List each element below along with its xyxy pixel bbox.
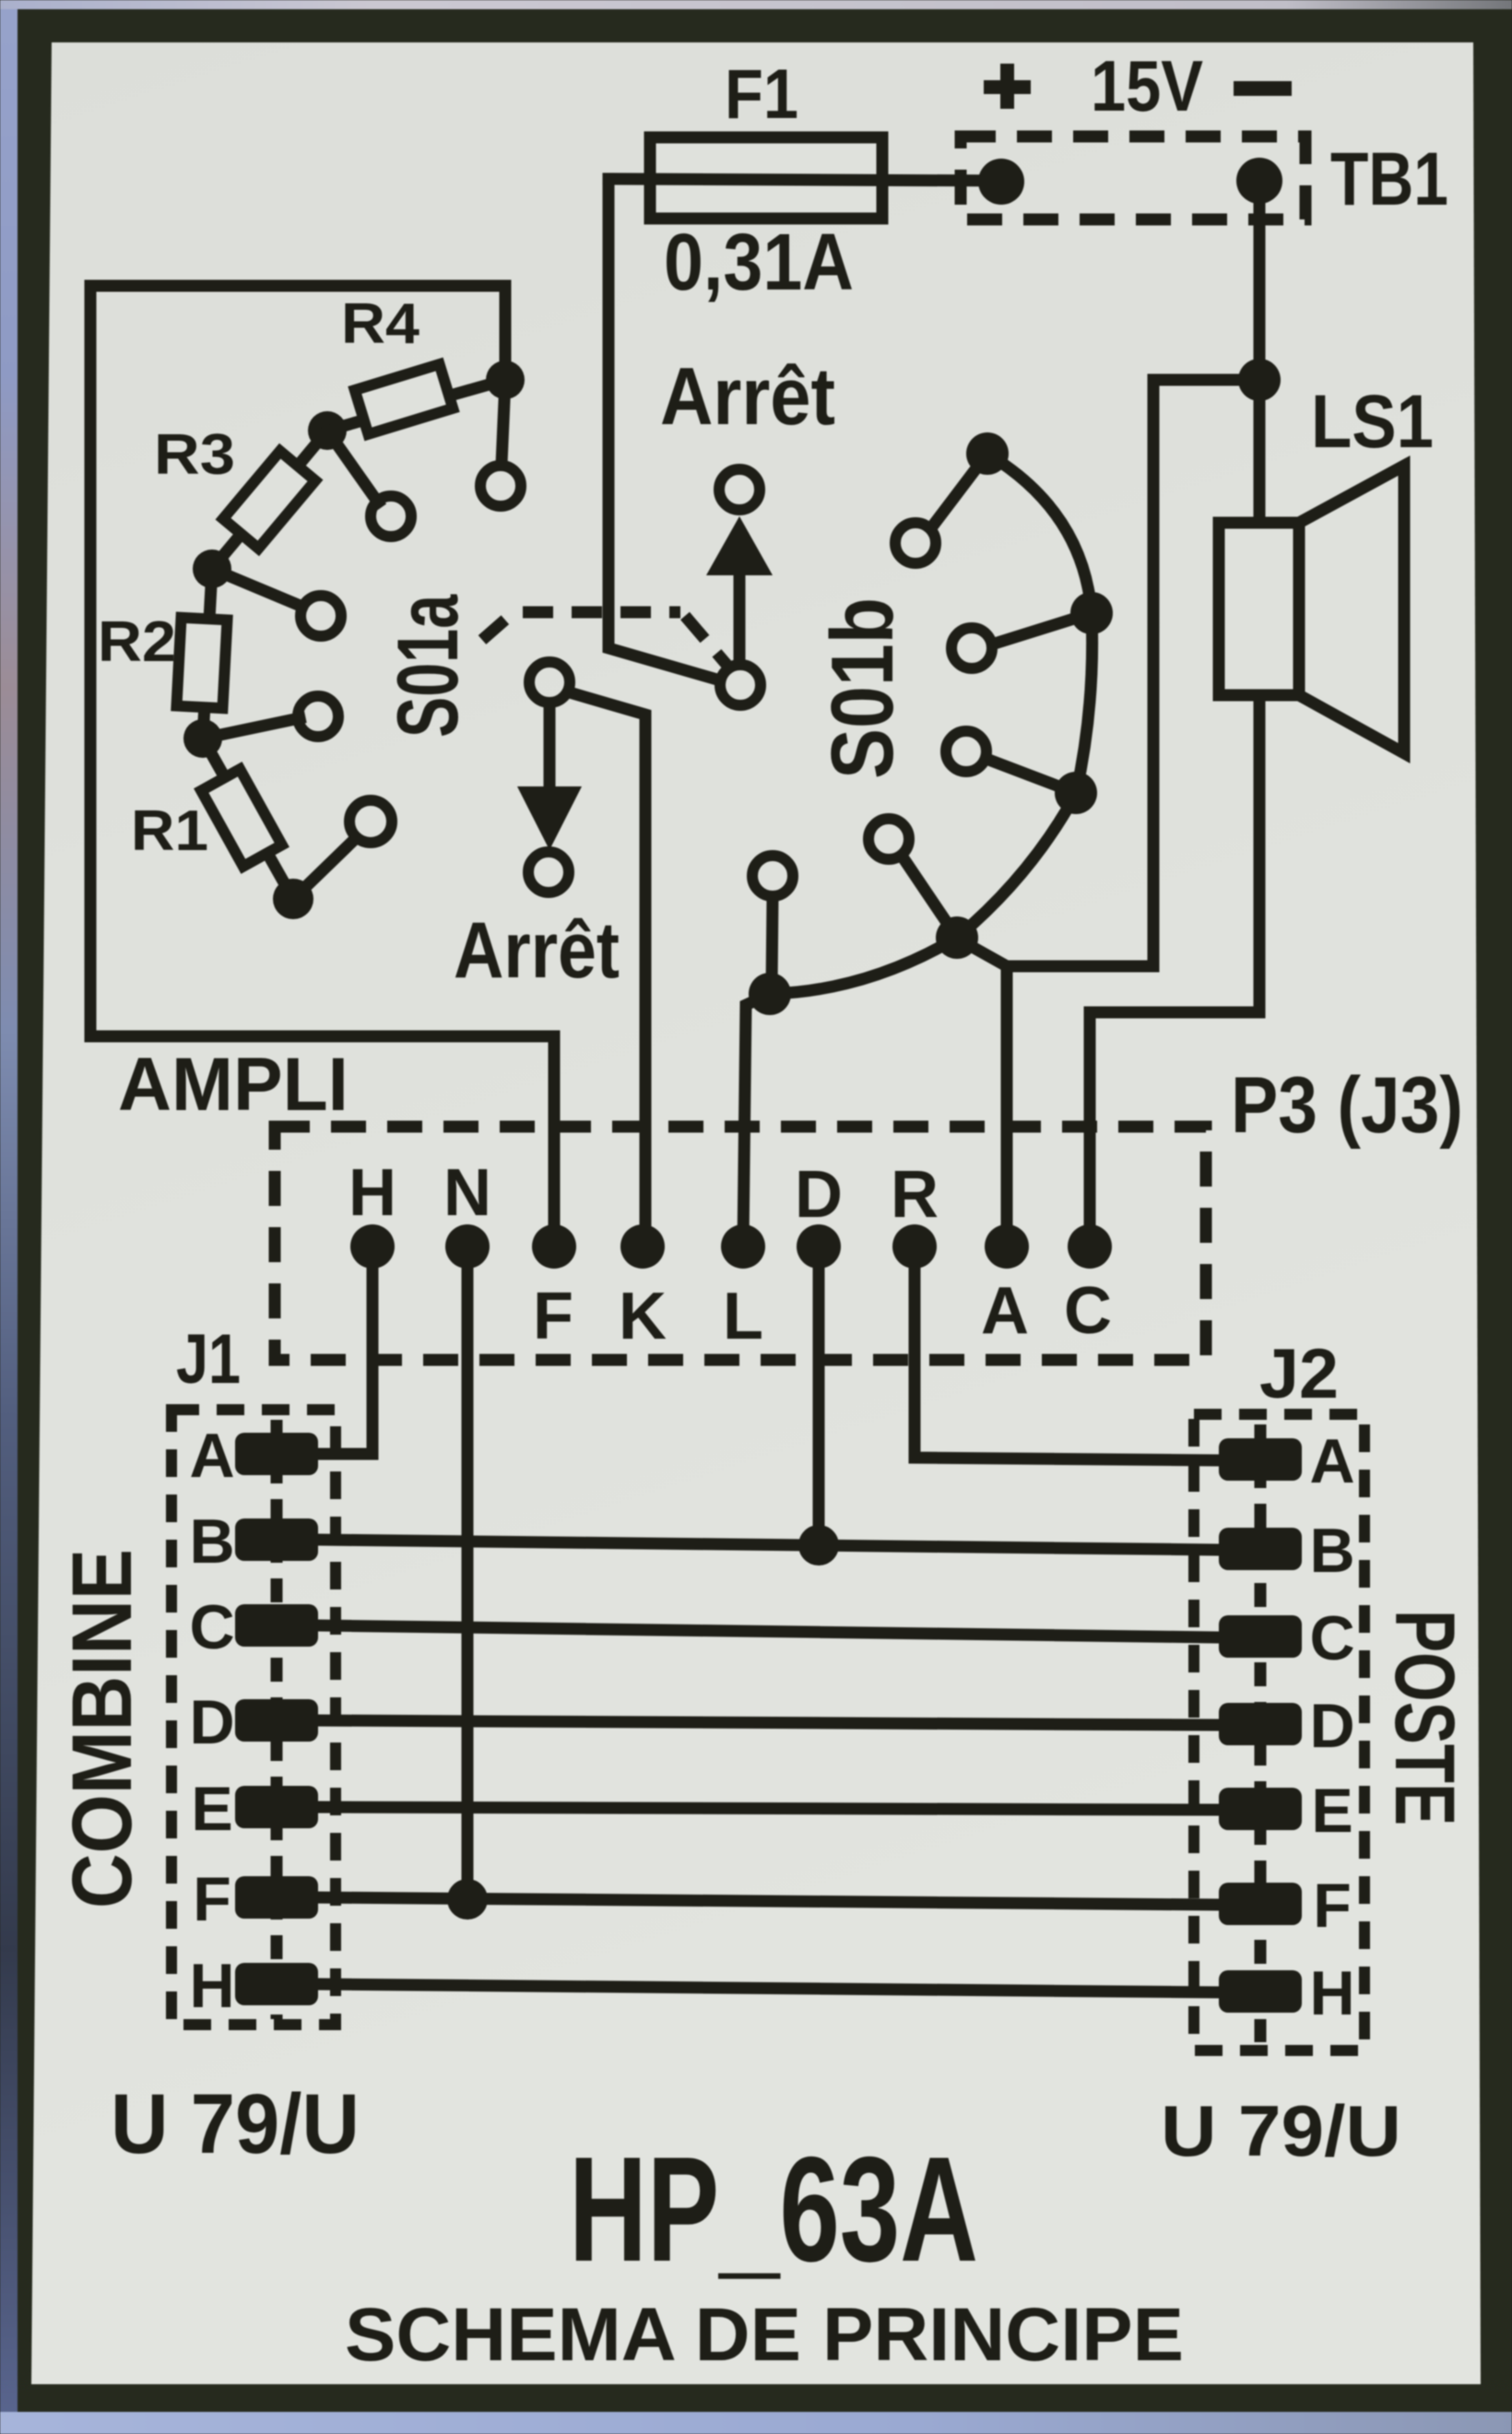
node S01b junction 4 (936, 916, 978, 959)
svg-text:P3 (J3): P3 (J3) (1231, 1061, 1463, 1150)
switch S01a pole2 circle (529, 662, 570, 703)
wire pole2 to terminal K (573, 693, 645, 1247)
node N-F junction (447, 1879, 488, 1920)
svg-text:D: D (795, 1158, 843, 1232)
contact circle b3 (946, 731, 986, 772)
svg-text:F1: F1 (725, 55, 798, 134)
svg-text:A: A (981, 1274, 1029, 1348)
svg-text:H: H (189, 1951, 234, 2021)
node junction R2-R1 (183, 719, 222, 758)
terminal block TB1 dashed box (961, 136, 1305, 219)
label minus (1234, 81, 1292, 96)
node S01b junction 5 arc end (749, 973, 791, 1015)
TB1 plus terminal (978, 159, 1024, 205)
wire junction to S01b feed (1007, 380, 1259, 966)
svg-text:POSTE: POSTE (1377, 1610, 1471, 1825)
terminal F (532, 1224, 576, 1269)
J1 pin A (235, 1433, 318, 1475)
wire fuse through-line to TB1 (608, 179, 1001, 181)
J1 pin D (235, 1699, 318, 1742)
terminal L (721, 1224, 765, 1269)
label plus (984, 64, 1031, 109)
wire to contact b3 (991, 761, 1076, 793)
contact circle b4 (868, 819, 909, 859)
switch S01a up arrow (706, 516, 773, 575)
wire N down to F row (462, 1247, 474, 1900)
terminal D (797, 1224, 841, 1269)
J2 pin E (1219, 1788, 1302, 1830)
terminal K (620, 1224, 665, 1269)
svg-text:AMPLI: AMPLI (118, 1043, 348, 1127)
svg-text:J1: J1 (176, 1320, 241, 1399)
wire speaker bottom to terminal C (1090, 695, 1259, 1247)
svg-text:B: B (1309, 1516, 1354, 1586)
terminal H (350, 1224, 395, 1269)
node S01b junction 2 (1070, 592, 1113, 634)
wire R down to J2 A (915, 1247, 1221, 1460)
svg-text:R3: R3 (154, 423, 235, 487)
wire row D (316, 1720, 1221, 1725)
node R4 top junction (486, 360, 525, 399)
wire row F (316, 1897, 1221, 1905)
J2 pin D (1219, 1703, 1302, 1745)
fuse F1 (650, 137, 882, 219)
J2 pin C (1219, 1615, 1302, 1658)
svg-text:R2: R2 (98, 610, 176, 674)
svg-text:F: F (1313, 1871, 1352, 1941)
wire row H (316, 1984, 1221, 1992)
connector J1 pin strip dashed (271, 1420, 283, 2019)
svg-text:E: E (1311, 1776, 1353, 1846)
wire H down to J1 A (316, 1247, 372, 1454)
svg-text:R4: R4 (341, 292, 420, 356)
wire shield box from terminal F around resistor chain (90, 286, 554, 1247)
svg-text:U 79/U: U 79/U (111, 2077, 360, 2171)
contact circle s3 (301, 596, 341, 636)
svg-text:R: R (891, 1158, 939, 1232)
left blue film edge (0, 9, 18, 2434)
wire TB1 minus down (1254, 181, 1266, 380)
svg-text:D: D (1309, 1691, 1354, 1761)
svg-text:K: K (619, 1280, 667, 1353)
wire row C (316, 1625, 1221, 1637)
J1 pin F (235, 1876, 318, 1919)
svg-text:LS1: LS1 (1311, 380, 1434, 464)
svg-text:F: F (193, 1864, 231, 1934)
svg-text:TB1: TB1 (1330, 137, 1448, 221)
svg-text:C: C (1064, 1274, 1112, 1348)
connector J2 dashed box (1194, 1414, 1364, 2050)
svg-text:0,31A: 0,31A (664, 218, 854, 307)
connector J1 dashed box (171, 1410, 336, 2025)
svg-text:U 79/U: U 79/U (1161, 2090, 1401, 2171)
J1 pin H (235, 1963, 318, 2005)
svg-text:E: E (191, 1774, 232, 1844)
terminal R (892, 1224, 937, 1269)
connector J2 pin strip dashed (1255, 1424, 1267, 2042)
bottom blue film edge (0, 2412, 1512, 2434)
top light strip (0, 0, 1512, 9)
node S01b junction 3 (1055, 772, 1097, 814)
wire junction to contact s4 (203, 718, 300, 738)
wire to contact b1 (933, 454, 987, 526)
switch S01a wiper contact (720, 665, 761, 705)
wire fuse left drop (608, 179, 720, 680)
connector P3 dashed box (275, 1127, 1206, 1360)
mechanical coupling dashed (482, 612, 728, 667)
svg-text:L: L (723, 1280, 763, 1353)
wire D down to B row (813, 1247, 825, 1546)
svg-text:A: A (1309, 1426, 1354, 1496)
node D-B junction (798, 1525, 839, 1566)
node junction R4-R3 (308, 411, 347, 450)
switch S01a down arrow (517, 786, 582, 850)
svg-text:C: C (1309, 1603, 1354, 1673)
J2 pin A (1219, 1438, 1302, 1481)
wire arrow to wiper (734, 572, 746, 660)
wire junction to speaker (1254, 380, 1266, 523)
wire to contact b4 (905, 861, 957, 938)
arret bottom contact circle (528, 852, 569, 892)
J1 pin B (235, 1518, 318, 1561)
contact circle s2 (371, 496, 411, 537)
svg-text:B: B (189, 1506, 234, 1577)
svg-text:15V: 15V (1091, 45, 1203, 126)
svg-text:Arrêt: Arrêt (454, 906, 620, 995)
wire row E (316, 1807, 1221, 1810)
svg-text:HP_63A: HP_63A (569, 2126, 978, 2293)
resistor R2 (177, 569, 228, 738)
wire junction to contact s3 (212, 569, 302, 607)
wire junction to contact s2 (327, 431, 378, 502)
svg-text:COMBINE: COMBINE (55, 1549, 149, 1908)
terminal N (445, 1224, 490, 1269)
node S01b top junction (966, 432, 1009, 475)
wire pole2 down (544, 705, 556, 786)
switch S01a arret contact circle (719, 469, 760, 510)
svg-text:J2: J2 (1259, 1335, 1339, 1413)
resistor R3 (212, 431, 327, 569)
terminal A (985, 1224, 1029, 1269)
J1 pin C (235, 1604, 318, 1647)
svg-text:N: N (443, 1156, 491, 1230)
contact circle s5 (349, 800, 392, 843)
svg-text:S01a: S01a (379, 595, 476, 738)
svg-text:SCHEMA DE PRINCIPE: SCHEMA DE PRINCIPE (345, 2293, 1184, 2377)
svg-text:H: H (348, 1156, 396, 1230)
contact circle b5 (752, 856, 793, 896)
svg-text:F: F (533, 1280, 573, 1353)
J2 pin H (1219, 1970, 1302, 2013)
wire row B (316, 1540, 1221, 1550)
wire junction to contact (502, 380, 505, 464)
svg-text:Arrêt: Arrêt (660, 350, 835, 442)
svg-text:H: H (1309, 1958, 1354, 2028)
resistor R1 (201, 738, 293, 899)
J1 pin E (235, 1786, 318, 1828)
svg-text:D: D (189, 1687, 234, 1757)
J2 pin B (1219, 1528, 1302, 1570)
svg-text:R1: R1 (131, 799, 208, 863)
J2 pin F (1219, 1883, 1302, 1925)
wire arc end to contact b5 (772, 898, 773, 988)
wire down to terminal A (1001, 966, 1013, 1247)
contact circle b1 (895, 523, 936, 563)
node junction R1 bottom (273, 879, 313, 919)
svg-text:C: C (189, 1592, 234, 1662)
TB1 minus terminal (1236, 158, 1282, 204)
resistor R4 (327, 364, 505, 434)
wire diag to S01b wiper arc (961, 940, 1007, 966)
svg-text:A: A (189, 1421, 234, 1491)
node junction R3-R2 (193, 549, 231, 588)
svg-text:S01b: S01b (813, 597, 912, 779)
speaker LS1 (1219, 466, 1404, 753)
contact circle s4 (298, 696, 338, 737)
wire arc end to terminal L (743, 994, 770, 1247)
node junction TB1 branch (1238, 359, 1281, 401)
wire junction to contact s5 (293, 840, 354, 899)
wire to contact b2 (998, 613, 1092, 643)
switch S01b wiper arc (770, 454, 1093, 994)
terminal C (1068, 1224, 1112, 1269)
contact circle s1 (480, 466, 521, 506)
contact circle b2 (951, 628, 992, 668)
